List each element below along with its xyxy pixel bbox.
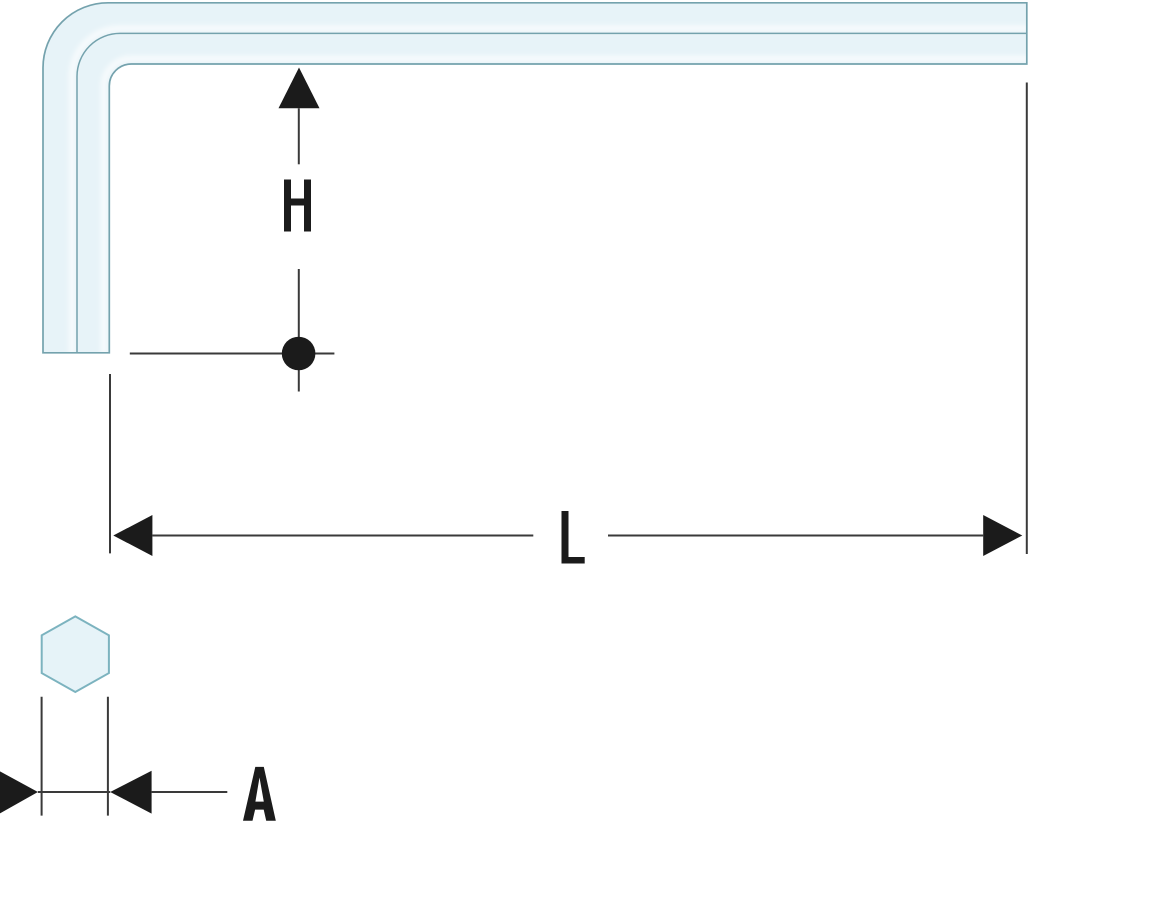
dimension A right extension line (107, 697, 109, 816)
dimension L left extension line (109, 374, 111, 553)
dimension A left extension line (41, 697, 43, 816)
label L (562, 511, 585, 564)
dimension L line left segment (152, 535, 533, 537)
hex key highlight along facet edge (72, 28, 1030, 355)
dimension A left arrow (points right) (0, 771, 38, 814)
dimension L left arrow (113, 515, 152, 556)
dimension A line between arrow tips (38, 791, 110, 793)
dimension H arrow (up) (279, 68, 320, 109)
dimension H line upper segment (298, 108, 300, 164)
dimension H line lower segment (298, 269, 300, 338)
hex key outline (43, 3, 1027, 353)
hexagon cross-section (42, 616, 109, 692)
dimension L right arrow (983, 515, 1022, 556)
dimension H line below dot (298, 370, 300, 392)
label A (243, 767, 276, 821)
dimension L line right segment (608, 535, 983, 537)
dimension H origin dot (282, 337, 316, 371)
hex key body (L-shaped wrench) (43, 3, 1027, 353)
dimension A right arrow (points left) (110, 771, 151, 814)
dimension L right extension line (1026, 83, 1028, 555)
dimension A tail line (152, 791, 228, 793)
hex key facet edge line (77, 33, 1027, 352)
label H (284, 180, 311, 232)
dimension H horizontal baseline through dot (130, 353, 335, 355)
